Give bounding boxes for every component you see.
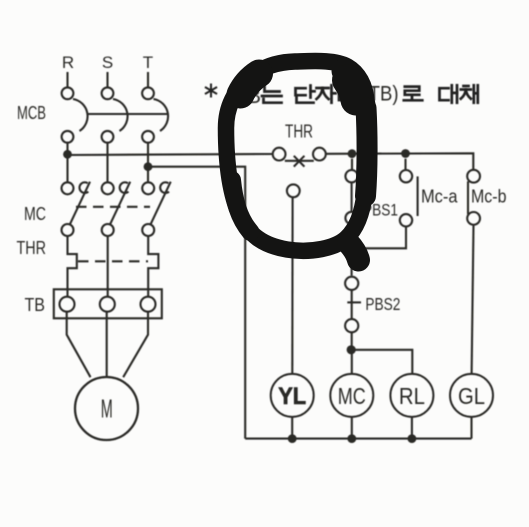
node bus YL bbox=[288, 434, 297, 443]
svg-text:GL: GL bbox=[458, 383, 485, 409]
wire bottom bus bbox=[245, 438, 471, 440]
hangul dae (hidden by ring) bbox=[339, 85, 355, 102]
relay THR linkage dashed bbox=[78, 260, 148, 262]
wire TB to motor S bbox=[106, 312, 108, 378]
lamp RL bbox=[390, 374, 433, 417]
breaker MCB pole T bbox=[142, 87, 168, 142]
node bus PBS1 bbox=[348, 149, 357, 158]
lamp YL bbox=[271, 374, 314, 417]
svg-text:MC: MC bbox=[338, 383, 366, 409]
contactor MC pole R bbox=[62, 182, 91, 236]
lamp GL bbox=[450, 374, 493, 417]
hangul neun bbox=[262, 87, 282, 103]
svg-text:T: T bbox=[143, 53, 153, 72]
wire control bus L1 bbox=[68, 153, 474, 170]
terminal THR trip bbox=[287, 184, 300, 197]
node bus Mc-a bbox=[401, 149, 410, 158]
contactor MC linkage dashed bbox=[76, 206, 150, 208]
breaker MCB pole R bbox=[62, 87, 88, 142]
asterisk bbox=[206, 85, 216, 97]
terminal TB-S bbox=[100, 297, 115, 312]
note text korean: * [MC]B는 단자대(TB)로 대체 bbox=[206, 83, 478, 109]
svg-text:PBS2: PBS2 bbox=[365, 294, 400, 314]
breaker MCB pole S bbox=[102, 87, 128, 142]
wire to lamp RL bbox=[351, 350, 412, 374]
wire TB to motor R bbox=[67, 312, 91, 378]
hangul dae bbox=[440, 85, 458, 102]
svg-text:M: M bbox=[101, 394, 113, 424]
terminal block TB box bbox=[54, 289, 162, 318]
motor M bbox=[75, 377, 138, 440]
svg-text:YL: YL bbox=[278, 383, 306, 410]
pushbutton PBS1 bbox=[345, 159, 357, 276]
svg-text:THR: THR bbox=[17, 238, 47, 258]
wire to lamp MC bbox=[351, 350, 353, 374]
relay THR heater T bbox=[148, 236, 158, 298]
pushbutton PBS2 bbox=[345, 277, 361, 350]
node bus RL bbox=[408, 434, 417, 443]
terminal TB-T bbox=[141, 297, 156, 312]
wire lamp RL bottom bbox=[411, 417, 413, 439]
terminal TB-R bbox=[60, 297, 75, 312]
wire TB to motor T bbox=[123, 312, 148, 378]
contact Mc-a bbox=[352, 159, 418, 249]
wire to lamp YL bbox=[291, 197, 293, 374]
svg-text:MC: MC bbox=[24, 204, 46, 224]
svg-text:Mc-b: Mc-b bbox=[471, 186, 507, 207]
wire S stub bbox=[106, 72, 108, 88]
svg-text:RL: RL bbox=[399, 383, 425, 409]
wire T stub bbox=[147, 72, 149, 88]
wire lamp MC bottom bbox=[351, 417, 353, 439]
svg-text:S: S bbox=[102, 53, 113, 72]
wire R phase MCB to MC bbox=[66, 143, 68, 183]
svg-text:THR: THR bbox=[285, 122, 313, 142]
hangul ro bbox=[404, 87, 423, 101]
svg-text:Mc-a: Mc-a bbox=[421, 186, 458, 207]
wire S phase MCB to MC bbox=[106, 143, 108, 183]
svg-text:TB: TB bbox=[25, 295, 46, 315]
wire control bus L2 bbox=[148, 167, 245, 439]
relay contact THR bbox=[273, 148, 326, 167]
hangul ja bbox=[317, 85, 336, 102]
wire lamp GL bottom bbox=[470, 417, 472, 439]
wire T phase MCB to MC bbox=[147, 143, 149, 183]
lamp MC bbox=[330, 374, 373, 417]
contactor MC pole S bbox=[102, 182, 131, 236]
svg-text:MCB: MCB bbox=[17, 103, 46, 123]
breaker MCB trip bar bbox=[87, 113, 168, 115]
hangul dan bbox=[296, 86, 315, 103]
relay THR heater S wire bbox=[107, 236, 109, 298]
contact Mc-b bbox=[467, 170, 480, 374]
relay THR heater R bbox=[68, 236, 77, 298]
wire R stub bbox=[66, 72, 68, 88]
annotation hand-drawn circle bbox=[226, 61, 367, 260]
node below PBS2 bbox=[347, 345, 356, 354]
wire lamp YL bottom bbox=[291, 417, 293, 439]
svg-text:R: R bbox=[62, 53, 74, 72]
node L2 at T phase bbox=[144, 162, 153, 171]
node L1 at R phase bbox=[63, 150, 72, 159]
contactor MC pole T bbox=[142, 182, 171, 236]
node bus MC bbox=[347, 434, 356, 443]
hangul che bbox=[461, 85, 478, 102]
